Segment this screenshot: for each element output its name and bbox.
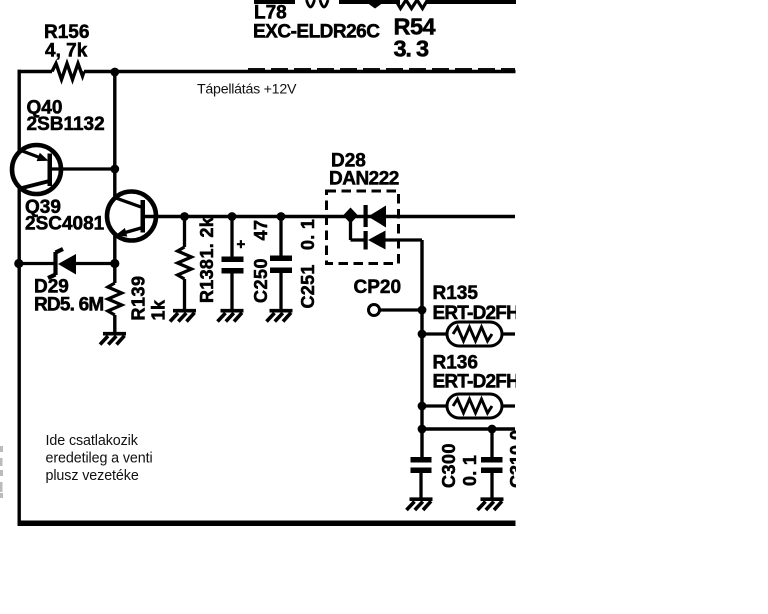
svg-text:CP20: CP20 bbox=[354, 277, 402, 298]
svg-text:C250: C250 bbox=[251, 258, 271, 303]
svg-text:ERT-D2FH: ERT-D2FH bbox=[433, 303, 520, 324]
svg-text:2SB1132: 2SB1132 bbox=[27, 114, 105, 135]
svg-text:eredetileg a venti: eredetileg a venti bbox=[46, 451, 153, 467]
svg-text:C300: C300 bbox=[439, 443, 459, 488]
svg-text:RD5. 6M: RD5. 6M bbox=[34, 295, 103, 316]
svg-text:Ide csatlakozik: Ide csatlakozik bbox=[46, 433, 139, 449]
svg-text:4, 7k: 4, 7k bbox=[45, 41, 88, 62]
svg-text:0. 1: 0. 1 bbox=[460, 455, 480, 486]
svg-text:2SC4081: 2SC4081 bbox=[25, 214, 105, 235]
svg-text:0. 1: 0. 1 bbox=[298, 219, 318, 250]
svg-text:3. 3: 3. 3 bbox=[394, 36, 430, 62]
svg-text:plusz vezetéke: plusz vezetéke bbox=[46, 468, 139, 484]
svg-text:C251: C251 bbox=[298, 264, 318, 308]
svg-text:ERT-D2FH: ERT-D2FH bbox=[433, 372, 520, 393]
svg-text:1k: 1k bbox=[149, 299, 169, 321]
svg-text:R135: R135 bbox=[433, 283, 479, 304]
svg-text:DAN222: DAN222 bbox=[329, 169, 399, 190]
svg-text:R139: R139 bbox=[129, 275, 149, 320]
svg-text:R138: R138 bbox=[197, 259, 217, 303]
svg-text:L78: L78 bbox=[254, 3, 287, 24]
svg-text:R136: R136 bbox=[433, 353, 478, 374]
svg-text:47: 47 bbox=[251, 219, 271, 240]
svg-text:+: + bbox=[237, 236, 246, 253]
svg-text:1. 2k: 1. 2k bbox=[197, 216, 217, 258]
svg-text:EXC-ELDR26C: EXC-ELDR26C bbox=[253, 22, 380, 43]
svg-text:Tápellátás +12V: Tápellátás +12V bbox=[197, 82, 297, 98]
